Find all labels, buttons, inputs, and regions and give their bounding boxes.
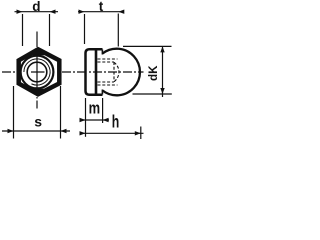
svg-text:d: d: [32, 0, 40, 14]
svg-text:t: t: [99, 0, 104, 14]
svg-text:dK: dK: [146, 65, 160, 81]
svg-text:h: h: [112, 112, 120, 132]
svg-text:s: s: [34, 114, 42, 130]
svg-text:m: m: [89, 98, 101, 117]
